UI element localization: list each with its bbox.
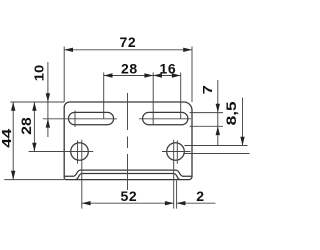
svg-text:28: 28 (121, 61, 138, 77)
72 right extension above plate (191, 47, 193, 103)
svg-text:72: 72 (120, 34, 137, 50)
circle right vertical center line (176, 140, 178, 163)
2 extension line (176, 181, 178, 209)
top edge extension to left (10, 101, 64, 103)
28/16 shared extension (152, 73, 154, 126)
slot right center line (139, 118, 191, 120)
dimension 28 left (32, 102, 36, 152)
svg-text:2: 2 (196, 188, 204, 204)
circle right horizontal center line (162, 151, 191, 153)
hole circle right (167, 143, 185, 161)
dimension 7 (outside arrows) (216, 80, 220, 146)
dimension 10 (outside arrows) (46, 62, 50, 137)
slot top edge extension right (190, 112, 224, 114)
28 top left extension (103, 73, 105, 120)
dimension 16 (153, 73, 181, 77)
svg-text:7: 7 (200, 85, 215, 94)
svg-text:28: 28 (19, 117, 34, 135)
slot left (68, 112, 113, 124)
svg-text:52: 52 (121, 188, 138, 204)
svg-text:44: 44 (0, 128, 14, 148)
dimension 8,5 (240, 98, 244, 146)
52 left extension line through left circle (81, 140, 83, 209)
bottom edge extension to left (4, 179, 64, 181)
bottom joggle upper contour (64, 170, 192, 176)
bottom joggle lower contour (76, 174, 181, 180)
slot left center line (43, 118, 117, 120)
slot bottom edge extension right (190, 125, 224, 127)
plate outline (64, 102, 192, 180)
circle left vertical center line (77, 140, 79, 163)
dimension 72 (64, 48, 192, 52)
hole circle left (71, 143, 89, 161)
72 left extension above plate (63, 47, 65, 103)
extension right at y=153.5 (184, 153, 249, 155)
extension right at y=145.5 (184, 145, 247, 147)
52 right extension line through right circle (173, 140, 175, 209)
slot left cap tick (74, 111, 76, 128)
circle left horizontal center line (29, 151, 94, 153)
vertical center line of plate (dash-dot) (127, 93, 129, 190)
dimension 44 (11, 102, 15, 180)
slot right (143, 112, 188, 124)
svg-text:10: 10 (32, 65, 47, 82)
16 right extension (180, 73, 182, 120)
dimension 2 (outside arrow) (177, 201, 216, 205)
dimension 28 top (104, 73, 154, 77)
svg-text:16: 16 (160, 61, 177, 77)
svg-text:8,5: 8,5 (224, 101, 239, 126)
dimension 52 (82, 201, 174, 205)
